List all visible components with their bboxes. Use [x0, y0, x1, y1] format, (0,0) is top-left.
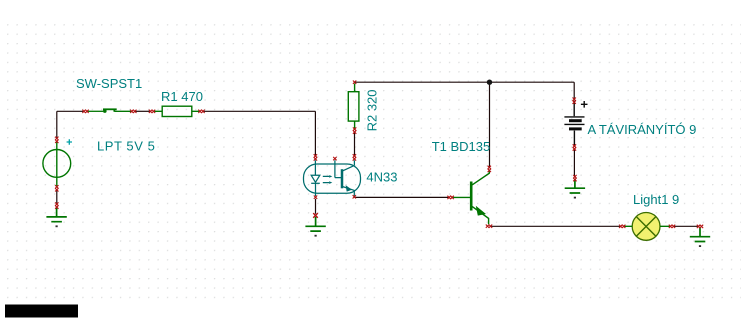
ground 4 under battery: [565, 179, 585, 198]
wire battery bottom to ground4: [573, 149, 575, 176]
switch SW-SPST1: [87, 109, 132, 111]
pin mark opto emitter bottom: [353, 195, 356, 198]
optocoupler U1 4N33 body: [304, 160, 361, 196]
pin mark battery top: [573, 98, 576, 104]
battery plus sign: [581, 101, 588, 108]
svg-text:Light1 9: Light1 9: [633, 192, 679, 207]
black bar bottom left: [5, 305, 78, 318]
opto phototransistor bar: [341, 169, 344, 188]
opto LED cathode bar: [311, 182, 320, 184]
wire lamp to ground3: [674, 225, 698, 227]
resistor R1: [154, 106, 200, 116]
pin mark ground2: [313, 213, 318, 218]
ground 2 under opto: [305, 217, 325, 236]
opto LED triangle: [311, 175, 320, 182]
svg-text:R1 470: R1 470: [161, 89, 203, 104]
pin mark lamp left: [619, 225, 625, 228]
pin mark rail left R2 top: [353, 81, 356, 84]
svg-text:SW-SPST1: SW-SPST1: [76, 76, 142, 91]
opto pin stubs: [315, 160, 354, 177]
svg-text:R2 320: R2 320: [364, 89, 379, 131]
wire opto emitter to T1 base: [354, 196, 449, 198]
wire T1 emitter to lamp: [491, 225, 621, 227]
pin mark ground4: [573, 175, 576, 181]
wire corner down to source plus pin: [56, 111, 58, 138]
voltage source LPT circle: [43, 142, 71, 187]
wire source top corner to switch: [57, 110, 84, 112]
pin mark ground1: [55, 202, 58, 208]
ground 3 right of lamp: [690, 227, 710, 246]
wire rail corner down to battery: [573, 82, 575, 99]
opto collector diagonal: [343, 165, 355, 170]
pin mark lamp right: [669, 225, 675, 228]
pin mark R2 bottom: [353, 127, 356, 133]
wire source bottom to ground1: [56, 190, 58, 204]
battery A TAVIRANYITO: [564, 101, 587, 146]
node junction rail/collector: [487, 80, 492, 85]
opto light arrows: [323, 176, 330, 182]
wire opto cathode to ground2: [315, 199, 317, 214]
pin mark opto anode: [314, 154, 317, 160]
wire R1 to right corner: [203, 110, 315, 112]
svg-text:T1 BD135: T1 BD135: [432, 139, 491, 154]
wire switch to R1: [135, 110, 151, 112]
voltage source plus sign: [67, 139, 72, 144]
pin mark opto collector: [353, 154, 356, 160]
pin mark T1 collector: [488, 166, 491, 172]
pin mark source bottom: [55, 185, 58, 191]
wire top supply rail: [355, 81, 575, 83]
pin mark T1 emitter: [486, 225, 492, 228]
transistor Q1 T1 BD135: [452, 171, 489, 224]
pin mark R1 right: [198, 110, 204, 113]
wire R2 bottom to opto collector: [354, 132, 356, 156]
pin mark source top: [55, 137, 58, 143]
lamp Light1: [625, 213, 671, 241]
resistor R2: [348, 84, 359, 129]
pin mark ground3: [697, 225, 703, 228]
svg-text:4N33: 4N33: [366, 169, 397, 184]
opto LED bottom lead: [315, 183, 317, 196]
pin mark switch right: [130, 110, 136, 113]
svg-text:A TÁVIRÁNYÍTÓ 9: A TÁVIRÁNYÍTÓ 9: [588, 122, 697, 137]
svg-text:LPT 5V 5: LPT 5V 5: [97, 139, 155, 154]
wire corner down to opto anode: [314, 111, 316, 156]
ground 1 under source: [46, 207, 66, 226]
pin mark R1 left: [149, 110, 155, 113]
wire rail down to T1 collector: [489, 82, 491, 167]
pin mark opto cathode bottom: [314, 196, 317, 199]
opto emitter diagonal and lead: [343, 187, 355, 196]
pin mark T1 base: [447, 196, 453, 199]
pin mark opto base: [333, 157, 336, 160]
pin mark battery bottom: [573, 144, 576, 150]
pin mark switch left: [82, 110, 88, 113]
